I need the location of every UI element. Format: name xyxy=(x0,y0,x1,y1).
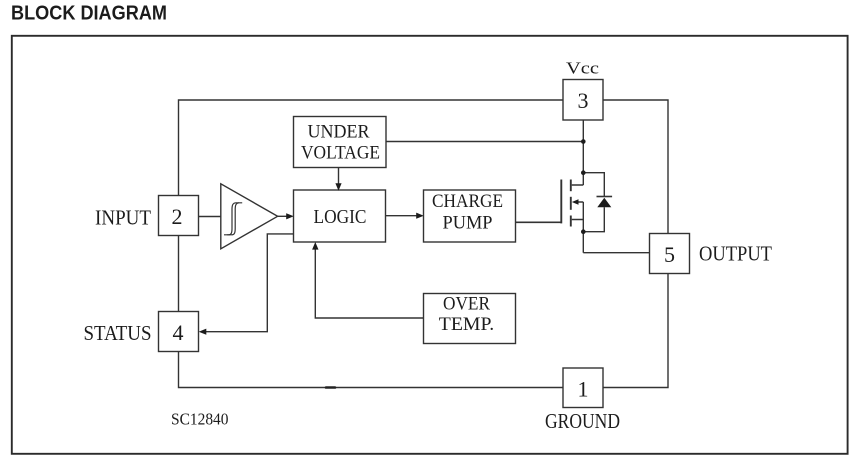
svg-text:INPUT: INPUT xyxy=(95,206,151,230)
wire: pin3 right to pin5 top xyxy=(603,100,668,234)
pin 2 (INPUT) xyxy=(159,196,199,236)
junction dot (drain / diode cathode) xyxy=(581,170,586,175)
wire: UNDER VOLTAGE to LOGIC (arrow down) xyxy=(335,168,341,191)
wire junction artifact on ground wire xyxy=(326,386,335,389)
pin 4 (STATUS) xyxy=(159,312,199,352)
block CHARGE PUMP xyxy=(424,190,516,242)
svg-text:OUTPUT: OUTPUT xyxy=(699,242,772,266)
svg-text:LOGIC: LOGIC xyxy=(314,206,367,228)
block LOGIC xyxy=(294,190,386,242)
pin 1 (GROUND) xyxy=(563,368,603,408)
wire: pin1 right up to pin5 bottom xyxy=(603,274,668,388)
svg-text:2: 2 xyxy=(172,204,183,229)
wire: pin2 to schmitt buffer input xyxy=(199,216,221,218)
wire: pin2 bottom to pin4 top xyxy=(178,236,180,312)
svg-text:3: 3 xyxy=(578,88,589,113)
wire: source vertical down to pin5 xyxy=(583,202,649,253)
svg-text:OVER: OVER xyxy=(443,294,490,315)
junction dot (source / diode anode) xyxy=(581,229,586,234)
svg-text:GROUND: GROUND xyxy=(545,409,620,433)
svg-text:5: 5 xyxy=(664,242,675,267)
pin 5 (OUTPUT) xyxy=(650,234,690,274)
svg-text:VOLTAGE: VOLTAGE xyxy=(301,143,380,164)
svg-text:SC12840: SC12840 xyxy=(171,410,229,429)
svg-text:STATUS: STATUS xyxy=(84,321,152,345)
svg-text:TEMP.: TEMP. xyxy=(439,314,495,335)
svg-text:Vcc: Vcc xyxy=(566,59,600,78)
svg-text:PUMP: PUMP xyxy=(443,213,493,234)
wire: UNDER VOLTAGE right to Vcc rail xyxy=(386,141,583,143)
svg-text:CHARGE: CHARGE xyxy=(432,191,503,212)
svg-text:1: 1 xyxy=(578,377,589,402)
block UNDER VOLTAGE xyxy=(294,117,387,168)
svg-text:UNDER: UNDER xyxy=(308,122,370,143)
svg-text:4: 4 xyxy=(173,320,184,345)
diode D1 (body diode) xyxy=(583,173,612,232)
schmitt trigger buffer xyxy=(221,184,278,249)
junction dot (Vcc / under-voltage) xyxy=(581,139,586,144)
wire: pin2 top to pin3 (Vcc rail) xyxy=(179,100,564,196)
wire: pin4 bottom along bottom to pin1 left xyxy=(179,352,564,388)
transistor Q1 (power MOSFET) xyxy=(561,180,583,227)
wire: buffer output to LOGIC (arrow) xyxy=(278,213,294,219)
wire: LOGIC to CHARGE PUMP (arrow) xyxy=(386,213,424,219)
pin 3 (Vcc) xyxy=(563,80,603,121)
wire: OVER TEMP to LOGIC bottom (arrow up) xyxy=(312,242,423,318)
wire: CHARGE PUMP to MOSFET gate xyxy=(516,221,562,223)
wire: LOGIC status out to pin4 (arrow left) xyxy=(199,234,294,335)
block OVER TEMP xyxy=(424,294,516,344)
wire: Vcc rail vertical (drain side) xyxy=(582,120,584,185)
svg-text:BLOCK DIAGRAM: BLOCK DIAGRAM xyxy=(11,3,167,25)
